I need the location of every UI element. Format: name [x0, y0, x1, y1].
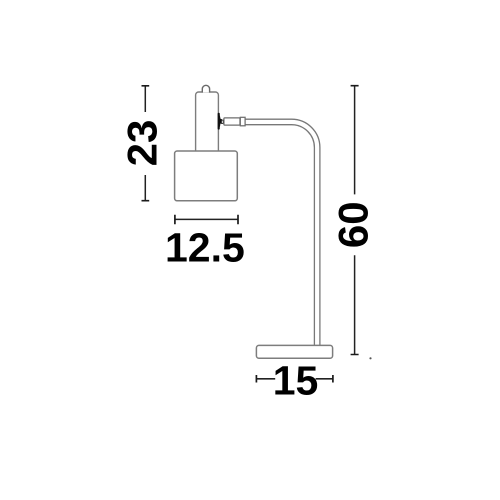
- dimension 23 end ticks: [142, 86, 150, 201]
- dimension 15 line segments: [256, 378, 333, 380]
- shade: [175, 151, 238, 201]
- lamp head body: [196, 92, 219, 154]
- joint cylinder: [224, 118, 240, 125]
- arm horizontal rod + curve outer line: [243, 119, 320, 345]
- dimension 60 end ticks: [351, 86, 359, 355]
- joint ring: [240, 117, 245, 126]
- svg-text:12.5: 12.5: [165, 224, 245, 270]
- dimension 23 extension line: [144, 86, 146, 200]
- dimension 12.5 end ticks: [175, 215, 238, 225]
- dimension 15 end ticks: [256, 375, 333, 383]
- dimension 12.5 line: [175, 218, 238, 220]
- joint clamp (black): [218, 113, 222, 130]
- svg-text:23: 23: [118, 120, 165, 167]
- joint white notch: [221, 120, 223, 123]
- arm inner line: [243, 125, 314, 346]
- svg-text:15: 15: [273, 357, 319, 403]
- speck artifact: [369, 357, 371, 359]
- knob on lamp head: [202, 85, 209, 92]
- dimension 60 extension line: [354, 86, 356, 354]
- svg-text:60: 60: [330, 201, 377, 248]
- base: [256, 345, 332, 358]
